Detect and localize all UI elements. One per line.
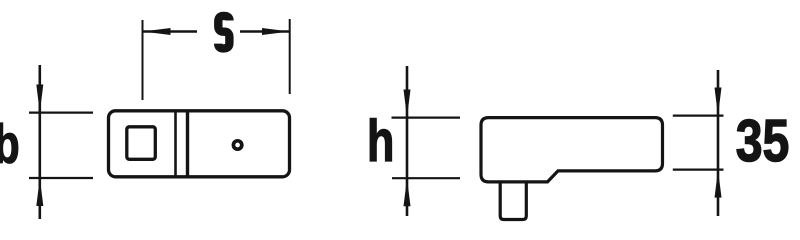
- dimension b arrow bottom: [36, 178, 43, 206]
- dimension h line: [406, 66, 409, 216]
- dimension b line: [38, 65, 41, 219]
- svg-text:h: h: [367, 108, 394, 173]
- dimension 35 arrow bottom: [715, 170, 722, 198]
- dimension h extension line bottom: [392, 177, 460, 179]
- square drive hole: [127, 127, 156, 160]
- dimension h arrow top: [404, 90, 411, 118]
- dimension h label: [367, 108, 394, 173]
- dimension 35 arrow top: [715, 88, 722, 116]
- dimension S line left segment: [143, 30, 198, 32]
- left view body outline: [109, 111, 290, 177]
- dimension S arrow right: [262, 28, 290, 35]
- dimension h extension line top: [392, 116, 461, 118]
- dimension S extension line left: [142, 20, 144, 100]
- pin hole circle: [233, 141, 241, 149]
- dimension S extension line right: [289, 19, 291, 94]
- dimension b arrow top: [36, 85, 43, 113]
- dimension 35 extension line top: [673, 114, 724, 116]
- right view body outline: [481, 118, 663, 182]
- thin vertical parting line: [174, 112, 177, 175]
- dimension b extension line top: [29, 111, 93, 113]
- dimension 35 line: [717, 70, 720, 216]
- dimension b label: [0, 114, 20, 175]
- thick vertical parting line: [186, 112, 189, 175]
- dimension 35 extension line bottom: [673, 169, 724, 171]
- dimension h arrow bottom: [404, 178, 411, 206]
- svg-text:35: 35: [736, 108, 790, 174]
- svg-text:b: b: [0, 114, 20, 175]
- dimension b extension line bottom: [29, 177, 93, 179]
- dimension 35 label: [736, 108, 790, 174]
- dimension S line right segment: [240, 30, 290, 32]
- dimension S label: [218, 16, 229, 49]
- dimension S arrow left: [143, 28, 171, 35]
- square drive tang: [500, 182, 526, 220]
